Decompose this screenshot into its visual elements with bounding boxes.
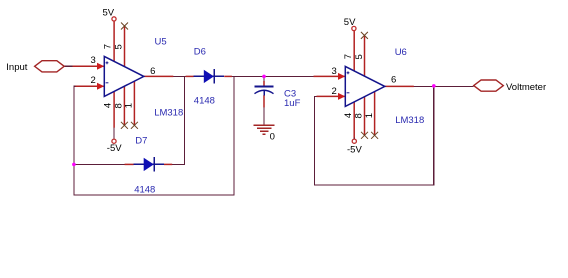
svg-text:7: 7 xyxy=(103,44,114,49)
svg-text:-5V: -5V xyxy=(107,143,122,154)
svg-text:3: 3 xyxy=(91,55,96,66)
svg-text:-5V: -5V xyxy=(347,145,362,156)
svg-text:4: 4 xyxy=(343,113,354,118)
svg-text:1: 1 xyxy=(364,113,375,118)
svg-text:Voltmeter: Voltmeter xyxy=(506,82,546,93)
svg-text:D6: D6 xyxy=(194,46,206,57)
svg-text:4148: 4148 xyxy=(194,95,215,106)
svg-text:2: 2 xyxy=(91,75,96,86)
svg-text:7: 7 xyxy=(343,54,354,59)
svg-text:1uF: 1uF xyxy=(284,98,301,109)
svg-text:4148: 4148 xyxy=(134,185,155,196)
svg-text:0: 0 xyxy=(270,132,275,143)
svg-text:4: 4 xyxy=(103,103,114,108)
svg-text:LM318: LM318 xyxy=(395,115,424,126)
svg-text:6: 6 xyxy=(150,66,155,77)
svg-text:5V: 5V xyxy=(103,7,115,18)
svg-text:U5: U5 xyxy=(155,36,167,47)
svg-text:Input: Input xyxy=(6,62,27,73)
svg-text:LM318: LM318 xyxy=(154,108,183,119)
svg-text:1: 1 xyxy=(124,103,135,108)
svg-text:5: 5 xyxy=(114,44,125,49)
svg-text:6: 6 xyxy=(391,75,396,86)
svg-text:2: 2 xyxy=(332,86,337,97)
svg-text:5: 5 xyxy=(354,54,365,59)
svg-text:U6: U6 xyxy=(395,47,407,58)
svg-text:5V: 5V xyxy=(344,17,356,28)
svg-text:3: 3 xyxy=(332,66,337,77)
svg-text:D7: D7 xyxy=(135,136,147,147)
